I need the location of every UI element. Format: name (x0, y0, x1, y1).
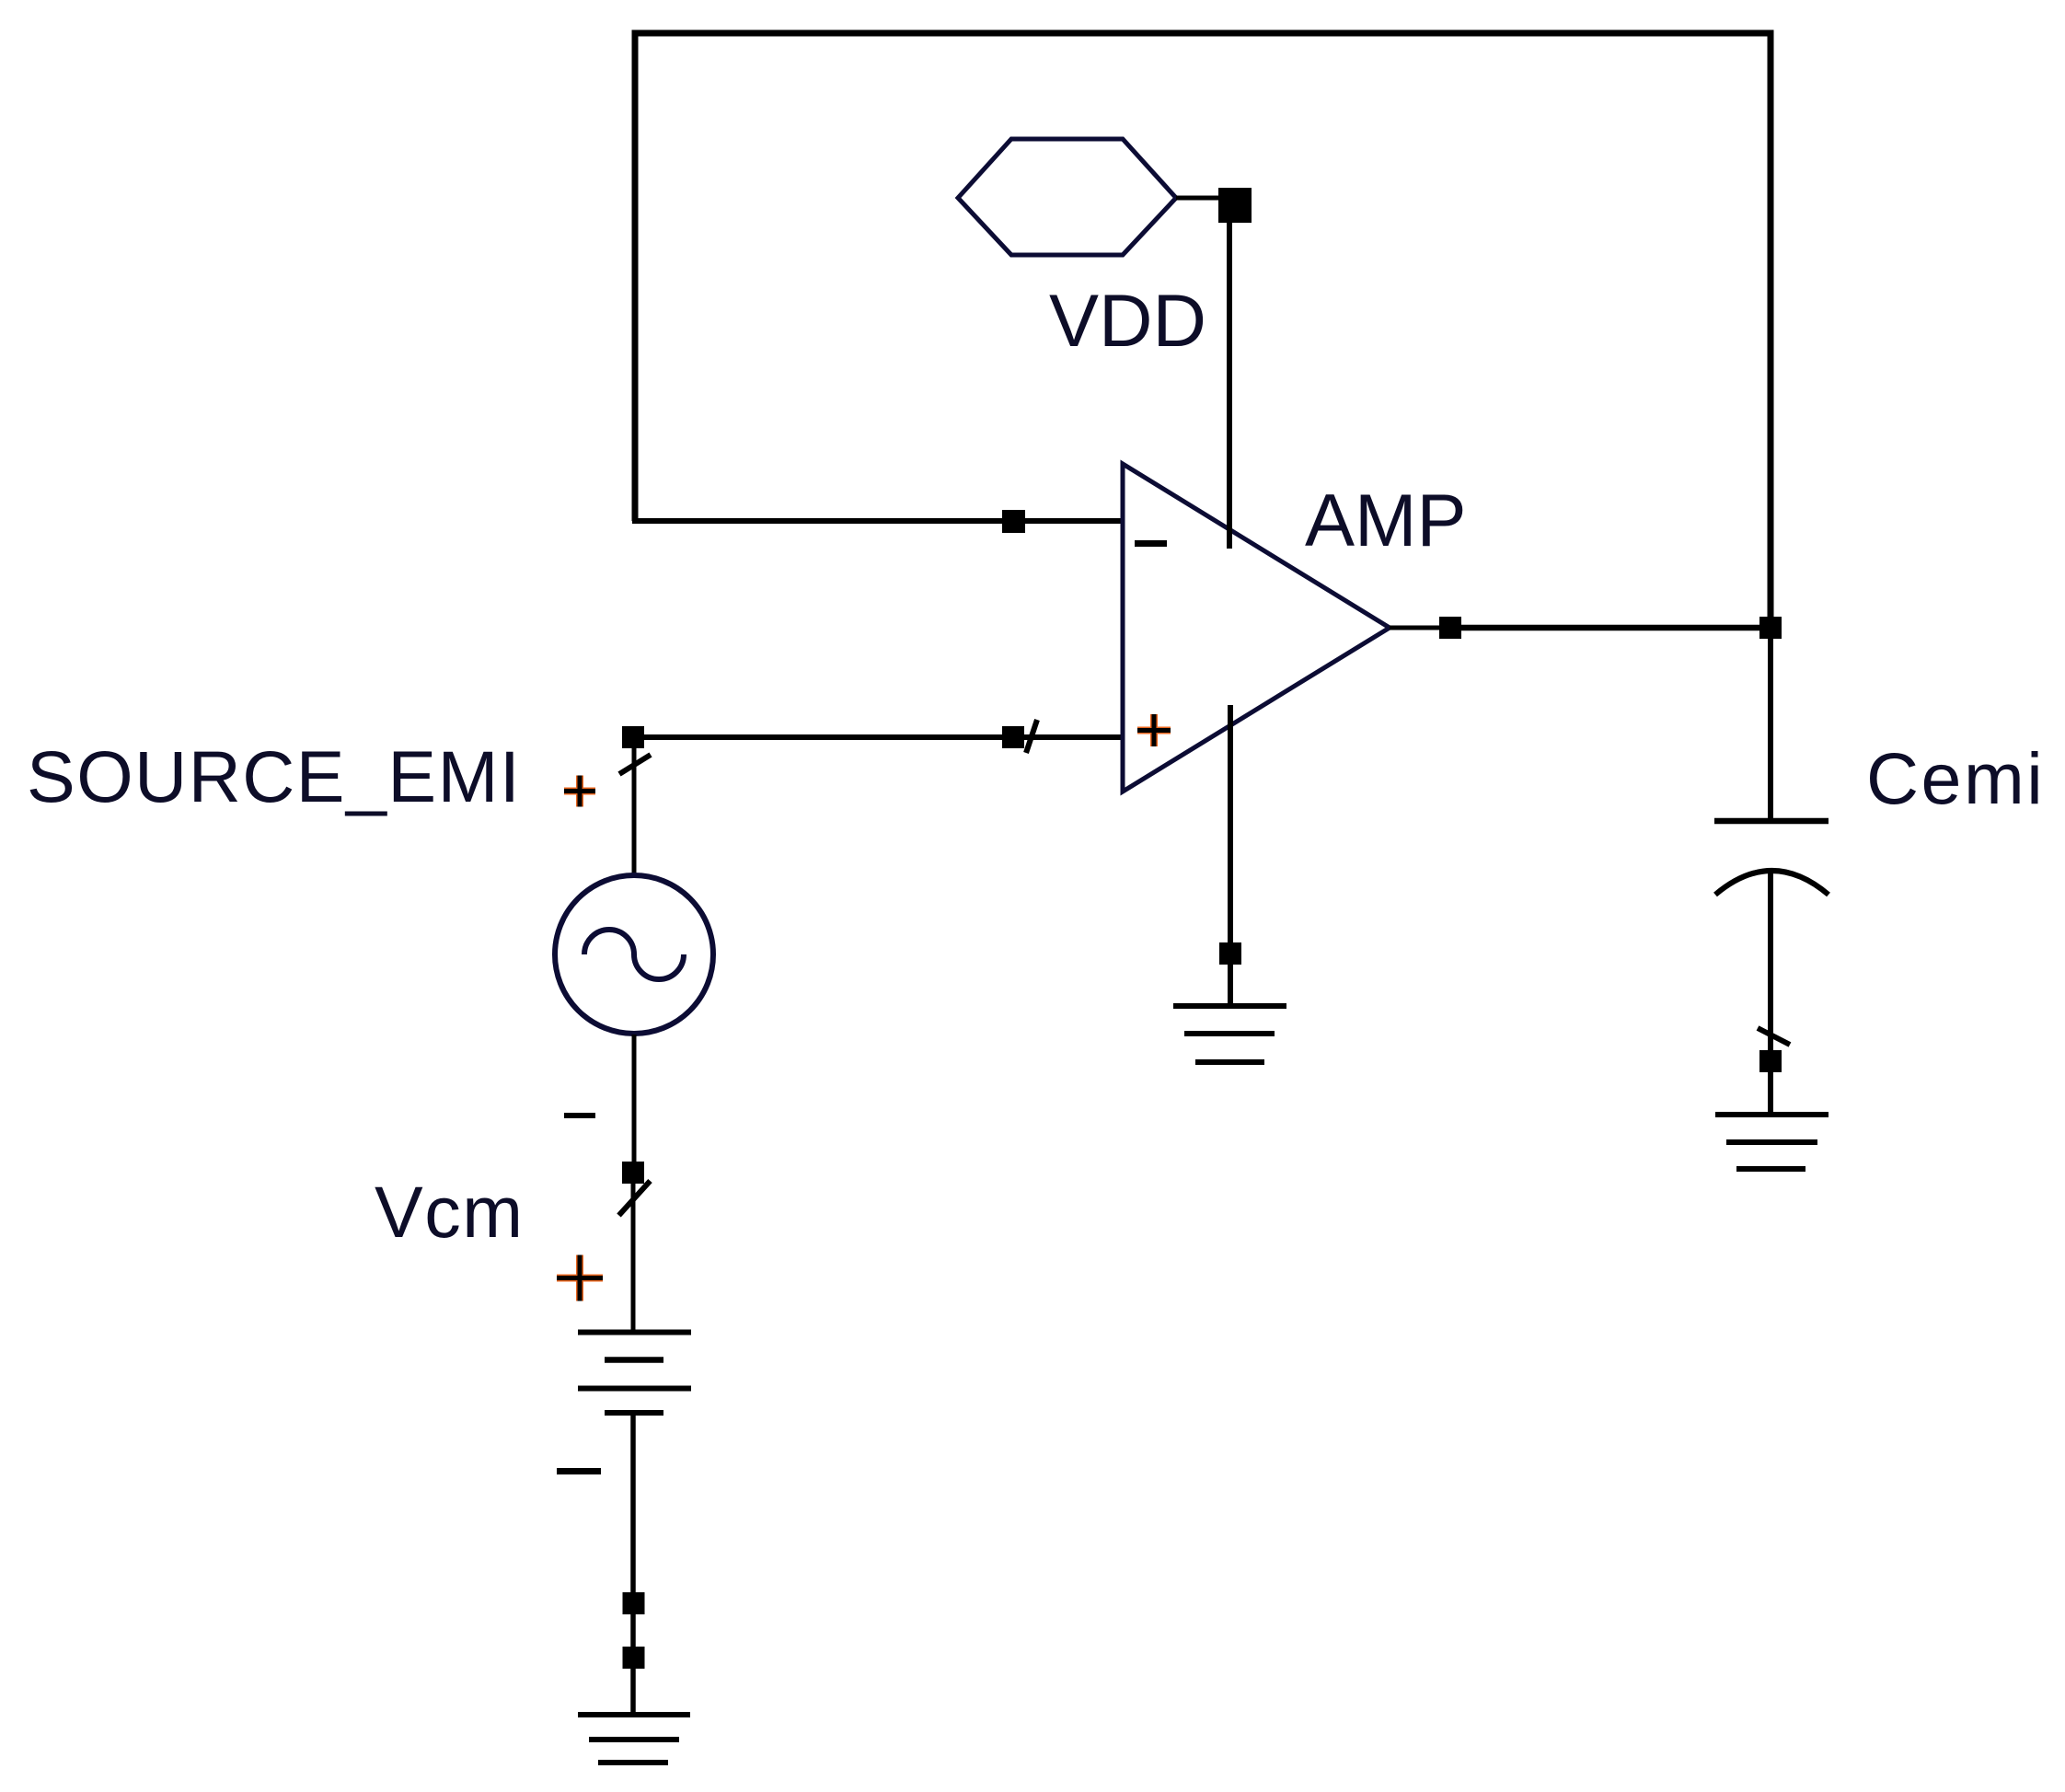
node junction op-amp ground (1219, 942, 1241, 965)
op-amp VSS supply pin wire to ground (1228, 705, 1233, 1003)
node junction battery bottom 2 (623, 1647, 645, 1669)
wire source top pin (632, 748, 637, 874)
tick at Cemi bottom (1758, 1028, 1790, 1045)
node junction VDD (1218, 188, 1252, 223)
ground middle symbol (1173, 1006, 1286, 1062)
node junction op-amp plus input (1002, 726, 1024, 748)
node junction battery bottom 1 (623, 1592, 645, 1614)
wire output (1461, 625, 1771, 631)
minus sign at source bottom (564, 1113, 595, 1118)
capacitor Cemi curved plate (1715, 871, 1829, 895)
node junction inverting input (1002, 510, 1025, 533)
battery Vcm plate short 2 (605, 1410, 663, 1416)
wire inverting input (632, 518, 1125, 524)
minus sign at battery bottom (557, 1468, 601, 1474)
wire noninverting input (632, 734, 1125, 740)
op-amp U1 triangle (1123, 464, 1390, 792)
svg-text:AMP: AMP (1305, 480, 1467, 562)
wire feedback loop top (635, 33, 1771, 622)
battery Vcm plate short 1 (605, 1357, 663, 1363)
wire output to Cemi (1768, 639, 1773, 818)
node junction Cemi bottom (1759, 1050, 1782, 1072)
op-amp minus sign (1135, 540, 1167, 547)
node junction source plus terminal (622, 726, 644, 748)
op-amp plus sign (1137, 714, 1171, 746)
svg-text:Cemi: Cemi (1866, 737, 2045, 819)
capacitor Cemi top plate (1714, 818, 1829, 825)
op-amp VDD supply pin wire (1227, 220, 1232, 549)
plus sign at Vcm (557, 1255, 603, 1301)
tick below Vcm junction (619, 1181, 651, 1216)
node junction output right (1759, 617, 1782, 639)
wire source bottom pin (632, 1035, 637, 1162)
VDD hexagon symbol (958, 139, 1176, 255)
node junction source minus / Vcm (622, 1162, 644, 1184)
op-amp output pin (1390, 626, 1439, 630)
wire Cemi to ground (1768, 873, 1773, 1113)
plus sign at SOURCE_EMI (564, 776, 595, 807)
ground right symbol (1715, 1115, 1829, 1169)
ground left symbol (578, 1715, 690, 1763)
AC source sine wave (584, 930, 684, 979)
svg-text:Vcm: Vcm (375, 1171, 525, 1253)
tick at op-amp plus input (1026, 720, 1037, 753)
svg-text:SOURCE_EMI: SOURCE_EMI (27, 735, 521, 817)
wire Vcm top pin (631, 1184, 636, 1330)
svg-text:VDD: VDD (1049, 280, 1206, 363)
wire battery to ground (630, 1416, 636, 1713)
battery Vcm plate long 2 (578, 1386, 691, 1392)
battery Vcm plate long 1 (578, 1330, 691, 1335)
VDD pin wire (1176, 196, 1224, 201)
tick at source plus terminal (619, 755, 651, 774)
node junction output (1439, 617, 1461, 639)
AC source SOURCE_EMI circle (555, 875, 713, 1034)
